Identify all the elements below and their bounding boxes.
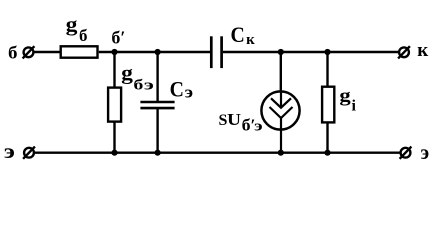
svg-text:э: э <box>144 78 154 94</box>
current source circle <box>261 91 299 129</box>
svg-text:i: i <box>352 98 357 115</box>
svg-text:к: к <box>417 40 428 61</box>
label g_i <box>339 85 356 114</box>
wire current source to bottom rail <box>280 118 282 153</box>
node б' <box>111 49 117 55</box>
current source chevron 1 <box>271 98 291 107</box>
wire gбэ to bottom rail <box>113 122 115 153</box>
wire down to capacitor Cэ <box>156 52 158 101</box>
label g_б <box>66 14 88 45</box>
wire down to resistor gi <box>326 52 328 87</box>
label SU_б'э <box>219 110 263 135</box>
current source chevron 2 <box>270 107 293 118</box>
resistor gб <box>61 46 98 57</box>
svg-text:к: к <box>246 32 255 48</box>
label C_э <box>170 76 194 101</box>
wire resistor to node б' <box>99 51 211 53</box>
node 2 bottom <box>155 150 161 156</box>
capacitor Cэ top plate <box>140 101 174 104</box>
terminal circle б <box>24 47 34 57</box>
node 4 bottom <box>324 150 330 156</box>
svg-text:б: б <box>79 26 88 45</box>
wire gi to bottom rail <box>326 122 328 152</box>
terminal circle э right <box>401 148 411 158</box>
wire base to resistor <box>35 51 61 53</box>
svg-text:б′: б′ <box>111 28 125 48</box>
svg-text:g: g <box>339 85 351 106</box>
terminal slash б <box>23 46 35 58</box>
svg-text:g: g <box>66 14 78 36</box>
label g_бэ <box>121 62 154 93</box>
terminal slash э left <box>23 147 35 159</box>
node 1 bottom <box>111 150 117 156</box>
resistor gi <box>322 87 334 123</box>
node 2 top <box>155 49 161 55</box>
svg-text:э: э <box>185 83 194 102</box>
terminal circle к <box>399 47 409 57</box>
capacitor Cк right plate <box>220 36 223 68</box>
svg-text:g: g <box>121 62 133 84</box>
svg-text:б: б <box>8 43 18 63</box>
capacitor Cэ bottom plate <box>140 107 174 110</box>
svg-text:э: э <box>4 139 15 163</box>
svg-text:U: U <box>227 110 241 129</box>
wire down to current source <box>280 52 282 92</box>
node 3 bottom <box>278 150 284 156</box>
label C_к <box>231 22 256 48</box>
svg-text:C: C <box>231 22 245 47</box>
capacitor Cк left plate <box>210 36 213 68</box>
svg-text:э: э <box>421 142 430 164</box>
node 4 top <box>324 49 330 55</box>
svg-text:C: C <box>170 76 184 101</box>
node 3 top <box>278 49 284 55</box>
svg-text:э: э <box>254 119 263 135</box>
bottom rail wire <box>35 151 400 153</box>
wire down to resistor gбэ <box>113 52 115 88</box>
current source arrow shaft top <box>280 92 282 108</box>
wire Cк to terminal к <box>223 51 398 53</box>
terminal circle э left <box>24 148 34 158</box>
terminal slash к <box>398 46 410 58</box>
terminal slash э right <box>400 147 412 159</box>
wire Cэ to bottom rail <box>156 109 158 153</box>
resistor gбэ <box>108 88 121 122</box>
svg-text:б: б <box>133 77 143 93</box>
